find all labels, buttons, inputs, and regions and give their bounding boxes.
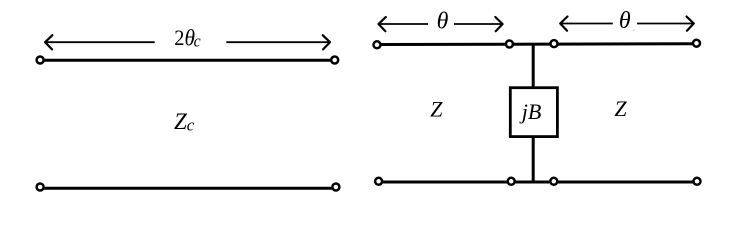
dimension arrow theta (first section) shaft right segment	[454, 23, 502, 25]
bottom conductor wire (right figure)	[380, 181, 696, 184]
shunt stub vertical wire	[532, 44, 535, 182]
terminal circle bottom-right	[332, 184, 339, 191]
dimension arrow theta (first section) left arrowhead	[379, 17, 386, 31]
dimension arrow 2theta_c shaft right segment	[226, 41, 329, 43]
junction circle top mid-right	[551, 40, 558, 47]
bottom conductor wire (left line)	[41, 187, 335, 190]
dimension arrow theta (second section) right arrowhead	[687, 17, 694, 31]
junction circle top mid-left	[506, 41, 513, 48]
svg-text:Zc: Zc	[174, 109, 195, 135]
dimension arrow theta (second section) shaft right segment	[637, 23, 693, 25]
terminal circle bottom far-right	[694, 178, 701, 185]
spellcheck dot artifact	[633, 29, 635, 31]
dimension arrow 2theta_c shaft left segment	[46, 41, 155, 43]
dimension arrow 2theta_c left arrowhead	[45, 35, 52, 49]
junction circle bottom mid-left	[508, 178, 515, 185]
terminal circle top far-left	[374, 41, 381, 48]
top conductor wire (left line)	[41, 59, 334, 62]
svg-text:Z: Z	[430, 97, 443, 122]
terminal circle top-right	[331, 57, 338, 64]
dimension arrow 2theta_c right arrowhead	[323, 35, 330, 49]
svg-text:θ: θ	[619, 8, 631, 34]
terminal circle bottom far-left	[375, 178, 382, 185]
junction circle bottom mid-right	[550, 178, 557, 185]
terminal circle top far-right	[693, 40, 700, 47]
susceptance element jB box	[510, 88, 557, 137]
svg-text:jB: jB	[519, 99, 542, 124]
top conductor wire (right figure)	[378, 42, 696, 46]
dimension arrow theta (second section) shaft left segment	[561, 23, 613, 25]
dimension arrow theta (second section) left arrowhead	[560, 17, 567, 31]
dimension arrow theta (first section) right arrowhead	[495, 17, 502, 31]
terminal circle bottom-left	[37, 184, 44, 191]
svg-text:2θc: 2θc	[174, 25, 201, 51]
dimension arrow theta (first section) shaft left segment	[379, 23, 428, 25]
svg-text:θ: θ	[437, 9, 449, 35]
svg-text:Z: Z	[614, 96, 627, 121]
terminal circle top-left	[37, 57, 44, 64]
